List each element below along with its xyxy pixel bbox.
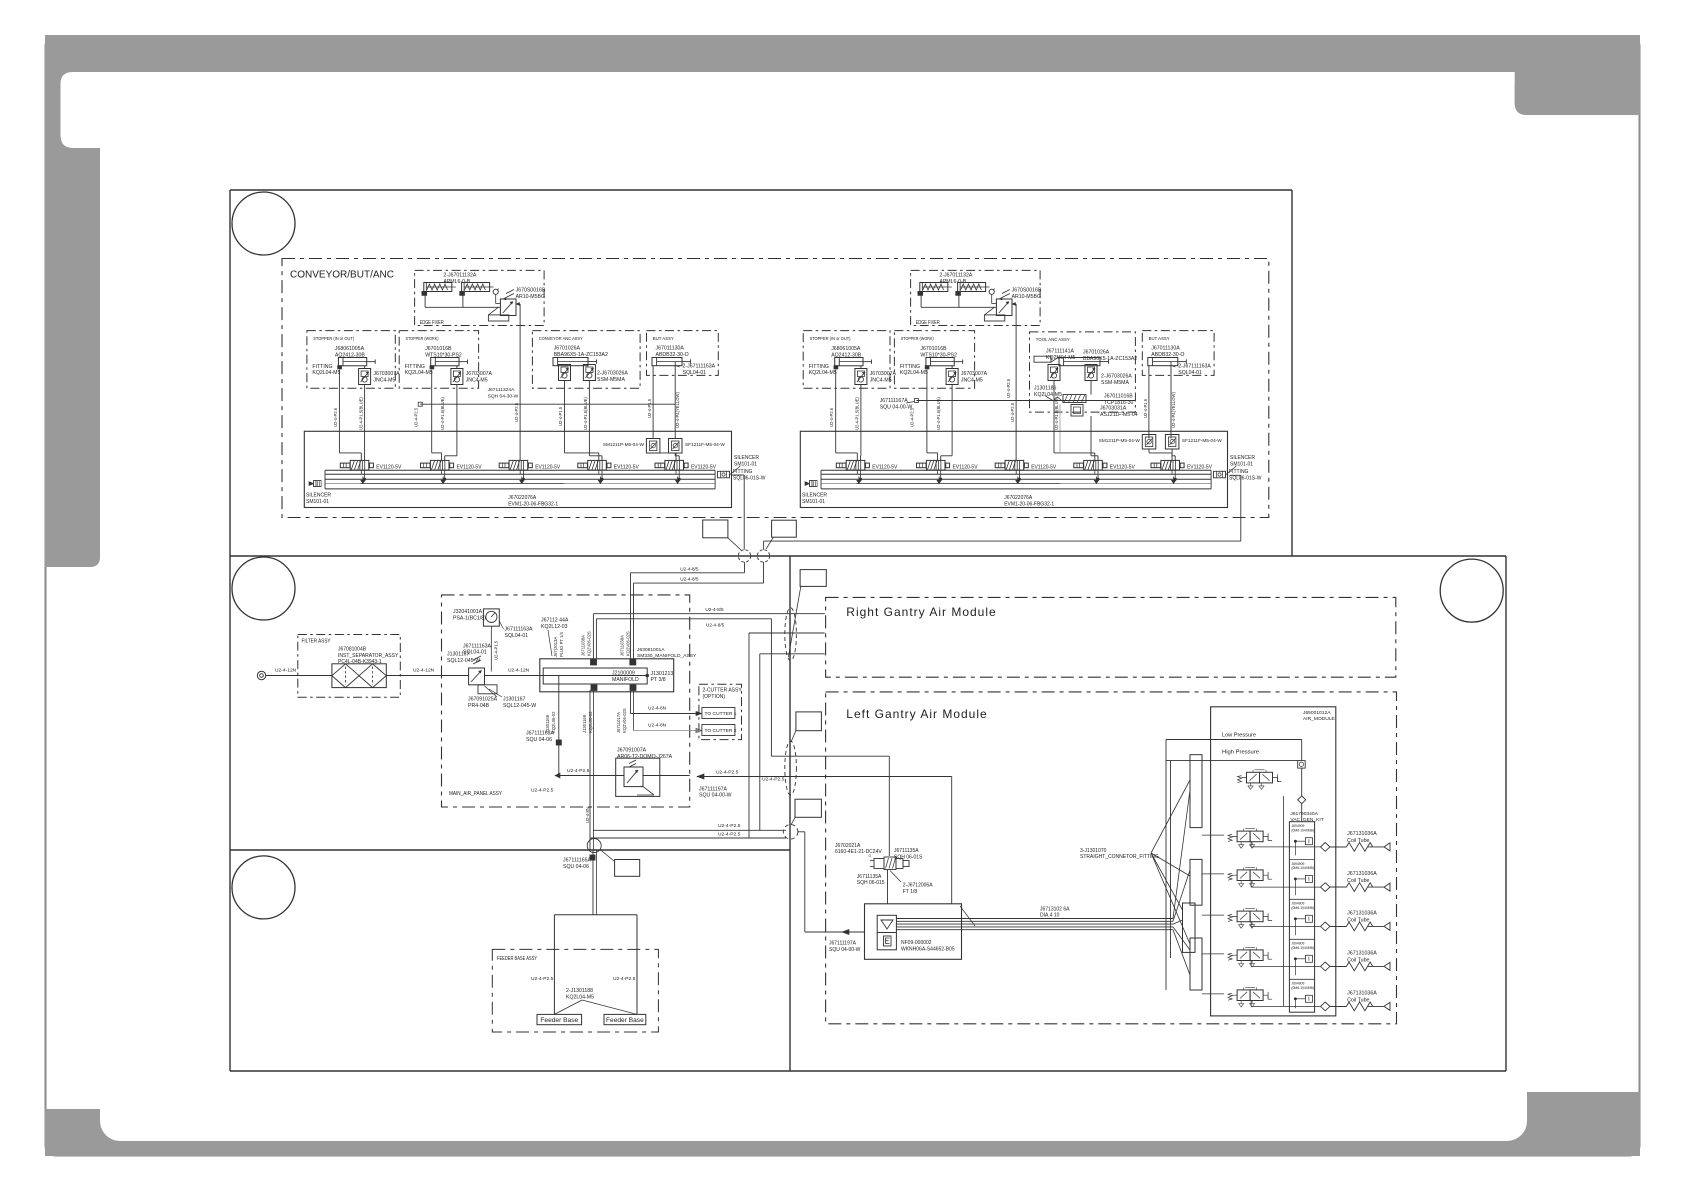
speed controller (359, 369, 371, 385)
speed controller (946, 369, 958, 385)
svg-text:CONVEYOR/BUT/ANC: CONVEYOR/BUT/ANC (290, 270, 394, 281)
svg-text:PSA-1(BC1/8): PSA-1(BC1/8) (453, 616, 486, 622)
svg-text:KQ2L06-02: KQ2L06-02 (588, 711, 593, 733)
svg-text:6160-4E1-21-DC24V: 6160-4E1-21-DC24V (835, 849, 882, 855)
svg-text:U2-4-P2.5: U2-4-P2.5 (333, 407, 338, 427)
svg-text:U2-4-P2.5: U2-4-P2.5 (716, 769, 739, 775)
solenoid valve EV1120-5V (578, 460, 639, 480)
svg-text:J68061005A: J68061005A (335, 346, 365, 352)
svg-text:J6711135A: J6711135A (857, 874, 882, 880)
zone circle D (1440, 559, 1503, 622)
coil tube (1321, 911, 1391, 931)
solenoid valve EV1120-5V (655, 460, 716, 480)
junction label rect 1 (703, 520, 728, 538)
small fitting AS1211F (1071, 405, 1083, 417)
svg-text:2-J67011132A: 2-J67011132A (443, 273, 477, 279)
top 5/2 valve (1238, 770, 1282, 790)
right gantry air module box (826, 597, 1396, 677)
svg-text:AR06-T2-DOMO-J267A: AR06-T2-DOMO-J267A (617, 754, 673, 760)
coil tube (1321, 951, 1391, 971)
svg-text:J32041001A: J32041001A (453, 609, 483, 615)
leader lines to feeder bases (554, 1000, 582, 1014)
svg-text:PR4-04B: PR4-04B (468, 703, 490, 709)
svg-text:SILENCER: SILENCER (734, 455, 759, 461)
solenoid valve EV1120-5V (1151, 460, 1212, 480)
svg-text:SM1211P-M5-04-W: SM1211P-M5-04-W (603, 442, 645, 447)
speed controller 2 (583, 365, 595, 381)
svg-text:U2-4-P2.5: U2-4-P2.5 (829, 407, 834, 427)
svg-text:SQU 04-00-W: SQU 04-00-W (880, 405, 913, 411)
but assy box (647, 331, 719, 376)
zone circle C (232, 856, 295, 919)
svg-text:J67022076A: J67022076A (1004, 495, 1033, 501)
inlet pipe (266, 675, 332, 677)
svg-text:FITTING: FITTING (900, 364, 920, 370)
svg-text:J67022076A: J67022076A (508, 495, 537, 501)
bus exit right manifold to junction (1230, 474, 1241, 476)
svg-text:J670S0016B: J670S0016B (1012, 288, 1042, 294)
svg-text:J6701016B: J6701016B (425, 346, 452, 352)
svg-text:2-J67111163A: 2-J67111163A (683, 363, 716, 369)
svg-text:JNC4-M5: JNC4-M5 (466, 378, 488, 384)
svg-text:Coil Tube: Coil Tube (1347, 998, 1369, 1004)
svg-text:J67131036A: J67131036A (1347, 871, 1377, 877)
svg-text:J63081001A: J63081001A (637, 647, 665, 653)
svg-text:2-J6703026A: 2-J6703026A (597, 370, 628, 376)
svg-text:Feeder Base: Feeder Base (606, 1017, 644, 1024)
svg-text:J670S0016B: J670S0016B (516, 288, 546, 294)
edge fixer assy box (911, 270, 1041, 325)
speed controller (451, 369, 463, 385)
speed controller 2 (1085, 365, 1097, 381)
svg-text:PLUG PT 1/4: PLUG PT 1/4 (559, 632, 564, 657)
svg-text:(0M6-1040MB): (0M6-1040MB) (1291, 946, 1314, 950)
svg-text:U2-4-P2.5: U2-4-P2.5 (909, 407, 914, 427)
manifold outer rect (800, 431, 1227, 507)
svg-text:FEEDER BASE ASSY: FEEDER BASE ASSY (497, 956, 537, 962)
speed controller 1 (1048, 365, 1060, 381)
regulator AR10 (996, 290, 1012, 316)
svg-text:J67111163A: J67111163A (505, 627, 534, 633)
gray corner decoration top-right block (1515, 72, 1640, 115)
check fitting SP1211 A (646, 439, 660, 454)
svg-text:J67112 44A: J67112 44A (541, 618, 569, 624)
long U2-4-8/5 lines to right gantry (593, 613, 824, 615)
lower U2-4 lines (593, 829, 786, 831)
svg-text:U2-4-P2.5: U2-4-P2.5 (718, 823, 741, 829)
svg-text:J6711135A: J6711135A (894, 848, 919, 854)
regulator outlet drop (1012, 303, 1016, 305)
svg-text:BBA96X5-1A-ZC153A2: BBA96X5-1A-ZC153A2 (1083, 356, 1137, 362)
svg-text:FILTER ASSY: FILTER ASSY (302, 638, 331, 644)
svg-text:KQ2V06-02S: KQ2V06-02S (626, 631, 631, 656)
cylinder (338, 358, 375, 366)
svg-text:J67081004B: J67081004B (338, 647, 367, 653)
feeder base left box (537, 1014, 582, 1024)
manifold bus lines (325, 469, 715, 471)
svg-text:SSM-M5MA: SSM-M5MA (1101, 380, 1129, 386)
svg-text:U2-4-P2.5: U2-4-P2.5 (531, 976, 554, 982)
svg-text:AS1211F-M5-04: AS1211F-M5-04 (1100, 412, 1138, 418)
svg-text:SM101-01: SM101-01 (306, 499, 329, 505)
coil tube (1321, 991, 1391, 1011)
wire drops (652, 366, 654, 439)
junction rect below divider (615, 860, 640, 877)
junction label rect 2 (772, 520, 797, 537)
svg-text:J6703007A: J6703007A (961, 371, 988, 377)
svg-text:U2-4-P1.5(BLUE): U2-4-P1.5(BLUE) (583, 397, 588, 430)
stopper assy box STOPPER (IN or OUT) (803, 331, 890, 389)
solenoid valve EV1120-5V (917, 460, 978, 480)
svg-text:SM330_MANIFOLD_ASSY: SM330_MANIFOLD_ASSY (637, 653, 697, 659)
silencer left (810, 481, 818, 487)
svg-text:J6703007A: J6703007A (466, 371, 493, 377)
svg-text:U2-4-8/5: U2-4-8/5 (706, 623, 725, 628)
svg-text:2-J67111163A: 2-J67111163A (1178, 363, 1211, 369)
svg-text:U2-4-P2.5: U2-4-P2.5 (613, 976, 636, 982)
svg-text:INST_SEPARATOR_ASSY: INST_SEPARATOR_ASSY (338, 653, 399, 659)
svg-text:JNC4-M5: JNC4-M5 (870, 378, 892, 384)
check fitting SP1211 B (669, 439, 683, 454)
svg-text:SSM-M5MA: SSM-M5MA (597, 377, 625, 383)
pressure feed lines (1166, 739, 1302, 741)
svg-text:U2-4-P2.5: U2-4-P2.5 (1006, 378, 1011, 398)
svg-text:J67(2013A: J67(2013A (553, 637, 558, 657)
svg-text:J67091007A: J67091007A (617, 747, 647, 753)
svg-text:J6701026A: J6701026A (554, 346, 581, 352)
svg-text:KQ2L04-M5: KQ2L04-M5 (566, 995, 594, 1001)
conveyor anc assy box (532, 331, 640, 389)
svg-text:J67111163A: J67111163A (463, 643, 492, 649)
but assy box (1142, 331, 1214, 376)
svg-text:TOOL ANC ASSY: TOOL ANC ASSY (1036, 337, 1071, 343)
speed controller 1 (559, 365, 571, 381)
svg-text:U2-4-8N: U2-4-8N (648, 723, 667, 729)
svg-text:2-J6712006A: 2-J6712006A (903, 883, 933, 889)
svg-text:U2-4-12N: U2-4-12N (508, 668, 530, 674)
cable bundle dashed ellipses (785, 608, 797, 661)
svg-text:SM1211P-M5-04-W: SM1211P-M5-04-W (1099, 438, 1141, 443)
solenoid valve EV1120-5V (421, 460, 482, 480)
svg-text:J65001012A: J65001012A (1303, 710, 1331, 716)
svg-text:J67111163A: J67111163A (526, 731, 555, 737)
svg-text:U2-4-8/5: U2-4-8/5 (680, 577, 699, 582)
svg-text:EV1120-5V: EV1120-5V (1187, 464, 1212, 470)
AR06 regulator assembly (616, 758, 660, 796)
lines into right gantry box (749, 632, 825, 634)
svg-text:SM101-01: SM101-01 (1230, 462, 1253, 468)
svg-text:SQL04-01: SQL04-01 (505, 633, 529, 639)
cylinder (431, 358, 468, 366)
solenoid valve EV1120-5V (499, 460, 560, 480)
svg-text:J67091025A: J67091025A (468, 697, 498, 703)
svg-text:U2-4-P2.5: U2-4-P2.5 (514, 402, 519, 422)
speed controller (855, 369, 867, 385)
check fitting SP1211 B (1165, 435, 1179, 450)
svg-text:U2-4-12N: U2-4-12N (413, 668, 435, 674)
solenoid valve EV1120-5V (836, 460, 897, 480)
zone circle B (232, 557, 295, 620)
pilot check box (1298, 761, 1306, 769)
vac gen kit column (1289, 822, 1314, 1013)
fitting right end (718, 471, 730, 478)
svg-text:U2-4-P2.5: U2-4-P2.5 (567, 768, 590, 774)
svg-text:EVM1-20-06-FBG32-1: EVM1-20-06-FBG32-1 (508, 501, 558, 507)
air module box (1211, 707, 1336, 1016)
svg-text:J1301167: J1301167 (447, 652, 470, 658)
coil tube (1321, 871, 1391, 891)
svg-text:EV1120-5V: EV1120-5V (376, 464, 401, 470)
gray corner decoration top bar (45, 35, 1640, 567)
manifold droppers (558, 676, 560, 776)
svg-text:U2-4-P1.5: U2-4-P1.5 (494, 640, 499, 660)
svg-text:J6703007A: J6703007A (373, 371, 400, 377)
svg-text:2-J6703026A: 2-J6703026A (1101, 373, 1132, 379)
svg-text:J67131036A: J67131036A (1347, 991, 1377, 997)
regulator drain rect (984, 315, 1004, 321)
svg-text:STOPPER (WORK): STOPPER (WORK) (901, 336, 934, 342)
svg-text:J67011130A: J67011130A (1151, 346, 1180, 352)
AR06 pipes (559, 775, 624, 777)
lines to cutters (631, 713, 696, 715)
NF09 input arrow (805, 931, 865, 933)
svg-text:J1301213: J1301213 (651, 671, 674, 677)
manifold outer rect (304, 431, 731, 507)
dash-dot box CONVEYOR/BUT/ANC (282, 259, 1269, 518)
svg-text:(0M6-1040MB): (0M6-1040MB) (1291, 986, 1314, 990)
svg-text:U2-4-8/5: U2-4-8/5 (680, 566, 699, 571)
edge fixer assy box (415, 270, 544, 325)
module output lines to coil (1330, 846, 1347, 848)
svg-text:JNC4-M5: JNC4-M5 (961, 378, 983, 384)
svg-text:(0M6-1040MB): (0M6-1040MB) (1291, 906, 1314, 910)
svg-text:EV1120-5V: EV1120-5V (1110, 464, 1135, 470)
solenoid to NF09 (887, 870, 889, 904)
svg-text:J68061005A: J68061005A (831, 346, 861, 352)
filter separator symbol (332, 664, 386, 688)
svg-text:TO CUTTER 1: TO CUTTER 1 (705, 711, 737, 717)
svg-text:SQL04-01: SQL04-01 (1178, 370, 1202, 376)
svg-text:Left Gantry Air Module: Left Gantry Air Module (846, 707, 987, 721)
svg-text:Feeder Base: Feeder Base (540, 1017, 578, 1024)
check diamond (1298, 796, 1306, 804)
svg-text:Low Pressure: Low Pressure (1222, 733, 1256, 739)
svg-text:EDGE FIXER: EDGE FIXER (420, 320, 444, 326)
svg-text:J67111141A: J67111141A (1046, 348, 1075, 354)
cylinder (1148, 358, 1187, 366)
svg-text:U2-4-12N: U2-4-12N (275, 668, 297, 674)
svg-text:TO CUTTER 2: TO CUTTER 2 (705, 728, 737, 734)
NF09 block (865, 904, 962, 960)
svg-text:SQL12-045-W: SQL12-045-W (447, 658, 480, 664)
silencer left (314, 481, 322, 487)
pressure gauge PSA-1 (483, 609, 499, 630)
svg-text:2-J1301188: 2-J1301188 (566, 988, 593, 994)
svg-text:STOPPER (IN or OUT): STOPPER (IN or OUT) (313, 336, 354, 342)
svg-text:J6713102 6A: J6713102 6A (1040, 906, 1070, 912)
svg-text:WKNH06A-S44652-B05: WKNH06A-S44652-B05 (901, 946, 955, 952)
wire drops (431, 370, 433, 453)
svg-text:KQ2L04-M5: KQ2L04-M5 (900, 370, 928, 376)
feeder base right box (604, 1014, 646, 1024)
hatched fitting TCP1816 (1063, 395, 1086, 403)
svg-text:FITTING: FITTING (312, 364, 332, 370)
gantry 5/2 valves (1228, 829, 1272, 849)
line from dashed circle to NF09 (798, 831, 805, 833)
svg-text:EV1120-5V: EV1120-5V (691, 464, 716, 470)
svg-text:U2-4-P2.5: U2-4-P2.5 (762, 776, 785, 782)
solenoid valve EV1120-5V (995, 460, 1056, 480)
wire drops (1053, 381, 1055, 453)
wire drops (564, 381, 566, 453)
svg-text:U2-4-P1.5: U2-4-P1.5 (647, 398, 652, 418)
svg-text:KQ2V06-02S: KQ2V06-02S (622, 708, 627, 733)
solenoid valve EV1120-5V (340, 460, 401, 480)
svg-text:U2-4-P1.5(BLUE): U2-4-P1.5(BLUE) (359, 397, 364, 430)
svg-text:J6703007A: J6703007A (870, 371, 897, 377)
junction circle c2 (757, 550, 769, 562)
stopper assy box STOPPER (IN or OUT) (307, 331, 395, 389)
pipe regulator to manifold (485, 675, 540, 677)
stopper assy box STOPPER (WORK) (399, 331, 478, 389)
regulator drain rect (488, 315, 508, 321)
svg-text:EDGE FIXER: EDGE FIXER (916, 320, 940, 326)
manifold riser pads (591, 660, 597, 666)
svg-text:BUT ASSY: BUT ASSY (653, 336, 675, 342)
svg-text:KQ2L12-03: KQ2L12-03 (541, 624, 568, 630)
svg-text:STOPPER (WORK): STOPPER (WORK) (406, 336, 439, 342)
solenoid valve J6702021A (869, 854, 910, 870)
svg-text:J67011130A: J67011130A (656, 346, 685, 352)
svg-text:KQ2L04-M5: KQ2L04-M5 (312, 370, 340, 376)
svg-text:SM101-01: SM101-01 (802, 499, 825, 505)
feeder trunk lines (592, 850, 594, 915)
svg-text:J67011016B: J67011016B (1104, 393, 1133, 399)
lines below junctions to middle section (744, 562, 746, 573)
svg-text:J1301186: J1301186 (1034, 386, 1057, 392)
svg-text:SQU 04-06: SQU 04-06 (563, 864, 589, 870)
svg-text:U2-4-P1.5(BLUE): U2-4-P1.5(BLUE) (855, 397, 860, 430)
svg-text:SQH 06-015: SQH 06-015 (857, 880, 885, 886)
wire drops (926, 370, 928, 453)
manifold bus lines (821, 469, 1211, 471)
gray corner decoration bottom bar (45, 1109, 1640, 1156)
edge fixer pipes (920, 296, 922, 308)
svg-text:J67111197A: J67111197A (829, 941, 857, 947)
svg-text:SQU 04-00-W: SQU 04-00-W (699, 793, 732, 799)
svg-text:J6711038A: J6711038A (620, 635, 625, 656)
filter outlet pipe (386, 675, 468, 677)
U2-4-P2.5 line to right gantry (697, 776, 952, 778)
svg-text:U2-4-P1.5(BLUE): U2-4-P1.5(BLUE) (936, 397, 941, 430)
svg-text:SQL04-01: SQL04-01 (683, 370, 707, 376)
svg-text:SQL06-01S-W: SQL06-01S-W (733, 476, 766, 482)
svg-text:SILENCER: SILENCER (306, 493, 331, 499)
svg-text:U2-4-P4(YELLOW): U2-4-P4(YELLOW) (1171, 392, 1176, 428)
svg-text:J6701026A: J6701026A (1083, 349, 1110, 355)
svg-text:J6711017A: J6711017A (616, 712, 621, 733)
svg-text:SQL06-01S-W: SQL06-01S-W (1229, 476, 1262, 482)
gauge small (989, 289, 994, 294)
svg-text:2-J67011132A: 2-J67011132A (939, 273, 973, 279)
svg-text:J6711038A: J6711038A (581, 635, 586, 656)
cylinder (652, 358, 691, 366)
SQH connecting line left (420, 403, 675, 405)
svg-text:Coil Tube: Coil Tube (1347, 878, 1369, 884)
svg-text:U2-4-P2.5: U2-4-P2.5 (718, 831, 741, 837)
svg-text:EV1120-5V: EV1120-5V (953, 464, 978, 470)
gauge small (493, 289, 498, 294)
svg-text:(0M6-1040MB): (0M6-1040MB) (1291, 828, 1314, 832)
svg-text:U2-4-P1.5: U2-4-P1.5 (1143, 398, 1148, 418)
section divider horizontal (230, 555, 1506, 557)
svg-text:NF09-000002: NF09-000002 (901, 940, 932, 946)
svg-text:J67131036A: J67131036A (1347, 951, 1377, 957)
svg-text:EV1120-5V: EV1120-5V (535, 464, 560, 470)
svg-text:2-CUTTER ASSY: 2-CUTTER ASSY (703, 687, 743, 693)
vac daisy chain line (1283, 796, 1285, 1007)
svg-text:Coil Tube: Coil Tube (1347, 918, 1369, 924)
svg-text:U2-4-P1.5(BLUE): U2-4-P1.5(BLUE) (1054, 397, 1059, 430)
svg-text:SQH 06-01S: SQH 06-01S (894, 855, 923, 861)
edge fixer pipes (424, 296, 426, 308)
main air panel assy box (442, 595, 690, 807)
svg-text:BUT ASSY: BUT ASSY (1149, 336, 1171, 342)
main manifold block (540, 659, 674, 692)
svg-text:J6701016B: J6701016B (920, 346, 947, 352)
svg-text:SQU 04-06: SQU 04-06 (526, 737, 552, 743)
svg-text:SM101-01: SM101-01 (734, 462, 757, 468)
air source port (257, 671, 265, 679)
regulator outlet drop (516, 303, 520, 305)
svg-text:J67111165A: J67111165A (563, 858, 592, 864)
svg-text:U2-4-8/5: U2-4-8/5 (705, 607, 724, 612)
svg-text:(0M6-1040MB): (0M6-1040MB) (1291, 866, 1314, 870)
svg-text:SF1211F-M5-04-W: SF1211F-M5-04-W (1182, 438, 1222, 443)
svg-text:J61790340A: J61790340A (1290, 811, 1318, 817)
SQU connecting line right (916, 400, 1135, 402)
solenoid feed lines (771, 755, 889, 757)
svg-text:DIA.4 10: DIA.4 10 (1040, 913, 1060, 919)
svg-text:Coil Tube: Coil Tube (1347, 958, 1369, 964)
cylinder (926, 358, 963, 366)
check fitting SP1211 A (1142, 435, 1156, 450)
section frame top box (230, 189, 1292, 191)
svg-text:U2-4-P1.5: U2-4-P1.5 (558, 406, 563, 426)
wire drops (1148, 366, 1150, 439)
svg-text:J67131036A: J67131036A (1347, 911, 1377, 917)
svg-text:SQL12-045-W: SQL12-045-W (503, 703, 536, 709)
cylinder (1059, 358, 1109, 366)
svg-text:AR10-M5BG: AR10-M5BG (1012, 294, 1041, 300)
svg-text:FITTING: FITTING (405, 364, 425, 370)
svg-text:Right Gantry Air Module: Right Gantry Air Module (846, 605, 996, 619)
manifold header rects (1190, 755, 1202, 828)
tool anc assy box (1030, 332, 1136, 412)
svg-text:J67111167A: J67111167A (880, 398, 909, 404)
svg-text:3-J1301070: 3-J1301070 (1080, 848, 1107, 854)
bundle fan to headers (1173, 790, 1190, 919)
wire drops (338, 370, 340, 453)
svg-text:KQ2V06-02S: KQ2V06-02S (587, 631, 592, 656)
svg-text:J1301169: J1301169 (582, 714, 587, 733)
cylinder with spring 2 (460, 283, 494, 296)
regulator PR4-04B (469, 668, 485, 685)
gray corner decoration bottom-right block (1527, 1092, 1640, 1141)
svg-text:Coil Tube: Coil Tube (1347, 838, 1369, 844)
svg-text:EV1120-5V: EV1120-5V (614, 464, 639, 470)
stopper assy box STOPPER (WORK) (894, 331, 974, 389)
